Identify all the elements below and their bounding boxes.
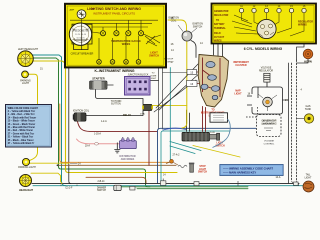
headlight lower-left: [20, 175, 32, 187]
wire black starter to relay bus: [96, 89, 144, 104]
svg-text:15: 15: [91, 7, 95, 11]
svg-text:TO HORN: TO HORN: [111, 101, 122, 103]
headlight upper-left: [18, 51, 34, 67]
svg-text:27-A: 27-A: [140, 113, 145, 116]
wire teal diagonals at motor: [170, 142, 201, 154]
svg-text:20-A: 20-A: [85, 145, 90, 148]
panel 1 internal wiring: [70, 19, 158, 27]
legend text: [8, 107, 39, 145]
distributor top towers: [123, 137, 133, 138]
brown junction dot: [57, 164, 59, 166]
PANEL-1 instrument cluster panel: [65, 4, 166, 68]
mid harness connector: [194, 182, 199, 186]
watermark bar: [220, 164, 283, 175]
svg-text:CLUSTER: CLUSTER: [235, 64, 247, 67]
gas tank feed: [297, 118, 305, 120]
wire black drop to starting motor: [187, 110, 190, 132]
wire panel2 bus right: [297, 44, 305, 60]
horn relay: [142, 104, 153, 110]
generator end view: [258, 94, 277, 111]
svg-text:SWITCH: SWITCH: [198, 172, 207, 174]
horn: [303, 49, 313, 59]
wire maroon drops to starting motor: [203, 107, 206, 132]
svg-text:TO: TO: [152, 73, 155, 75]
svg-text:TO STOP: TO STOP: [164, 59, 174, 61]
wire black bottom long run: [32, 183, 299, 185]
panel 2 terminal numbers: [240, 5, 306, 8]
wire pink distributor lead: [77, 139, 120, 144]
svg-text:WIRES: WIRES: [214, 41, 222, 43]
wire black dash fan diagonals: [154, 64, 202, 112]
svg-text:CONTROL: CONTROL: [264, 143, 275, 145]
svg-text:LIGHT: LIGHT: [199, 169, 206, 171]
svg-text:SWITCH: SWITCH: [149, 55, 159, 58]
speedometer gauge: [69, 23, 91, 50]
dash panel (tan): [198, 55, 228, 108]
cutout terminal block: [125, 77, 151, 96]
svg-text:REGULATOR: REGULATOR: [214, 14, 229, 17]
panel 1 background: [65, 4, 166, 68]
svg-text:BATTERY: BATTERY: [214, 23, 225, 26]
wire navy loop left: [158, 128, 257, 183]
wire yellow main left vertical: [32, 61, 177, 173]
gas tank sender: [304, 114, 313, 123]
starter: [90, 81, 114, 89]
svg-text:TAIL: TAIL: [306, 174, 311, 177]
svg-text:14-B: 14-B: [210, 132, 215, 134]
tail connector: [294, 182, 299, 185]
PANEL-2 regulator panel: [212, 4, 317, 44]
svg-text:TANK: TANK: [305, 108, 312, 111]
svg-text:2-B-14: 2-B-14: [98, 181, 106, 183]
wire right solid vertical: [288, 63, 290, 184]
wire black left vertical: [69, 57, 71, 184]
wire black panel2 drops: [214, 44, 223, 58]
svg-text:4 – Blk – Red – 2 Blu Trcr: 4 – Blk – Red – 2 Blu Trcr: [8, 113, 35, 116]
gauge terminal crosses: [101, 32, 142, 35]
ignition coil (between panels): [178, 25, 197, 41]
svg-text:35 – Black – Blue Tracer: 35 – Black – Blue Tracer: [8, 139, 34, 142]
ground symbol: [114, 143, 120, 153]
svg-text:27 – Green with Red Trcr: 27 – Green with Red Trcr: [8, 132, 35, 135]
svg-text:REGULATOR: REGULATOR: [259, 69, 273, 72]
gauge terminal row: [100, 31, 143, 36]
svg-text:STOP: STOP: [199, 166, 206, 168]
svg-text:27-A-2: 27-A-2: [173, 154, 181, 157]
speedometer housing: [72, 24, 92, 49]
svg-text:24 – Red – White Tracer: 24 – Red – White Tracer: [8, 129, 33, 132]
svg-text:WIRE COLOR CODE CHART: WIRE COLOR CODE CHART: [8, 107, 39, 110]
wire maroon relay drop: [148, 111, 150, 166]
wire black ignition drop: [191, 41, 196, 58]
svg-text:TO: TO: [216, 20, 219, 22]
svg-text:LIGHT: LIGHT: [165, 61, 172, 63]
svg-text:16 – Green – Black Tracer: 16 – Green – Black Tracer: [8, 123, 36, 126]
wire green dimmer run: [122, 187, 249, 189]
svg-text:15 – Black – White Tracer: 15 – Black – White Tracer: [8, 120, 35, 123]
wire yellow diagonal at motor: [193, 146, 240, 158]
svg-text:WIRES: WIRES: [122, 42, 131, 46]
wire black coil to relay: [86, 111, 143, 116]
panel 2 internal wiring: [242, 13, 305, 36]
svg-text:2 – Yellow with Black Trcr: 2 – Yellow with Black Trcr: [8, 110, 35, 113]
svg-text:1-2-A: 1-2-A: [101, 120, 107, 123]
svg-text:10 20 30 40: 10 20 30 40: [75, 34, 87, 36]
svg-text:TERMINAL: TERMINAL: [214, 27, 226, 30]
svg-text:PARKING LIGHT: PARKING LIGHT: [18, 166, 36, 169]
lower terminal crosses: [98, 60, 141, 63]
generator bracket: [247, 82, 283, 114]
svg-text:BUTTON: BUTTON: [111, 104, 121, 106]
svg-text:21 – Blue with Red Tracer: 21 – Blue with Red Tracer: [8, 126, 35, 129]
tail drop links: [292, 181, 300, 186]
wire black tag feed: [163, 72, 187, 74]
rear junction tick: [236, 181, 240, 186]
svg-text:LIGHT: LIGHT: [150, 78, 157, 80]
wire teal headlight feed left vertical: [33, 55, 66, 186]
wire yellow relay out: [152, 104, 187, 106]
wire yellow parking lamp vertical: [29, 74, 38, 160]
wire generator to right bus: [283, 99, 289, 101]
dashed link: [246, 107, 258, 117]
svg-text:IGNITION COIL: IGNITION COIL: [73, 111, 90, 113]
tail light: [303, 181, 314, 192]
svg-text:COIL: COIL: [171, 20, 177, 23]
starting motor: [182, 132, 220, 141]
svg-text:50 60 70: 50 60 70: [76, 37, 85, 39]
wire steel curve from junction box: [213, 119, 231, 148]
svg-text:SWITCH: SWITCH: [97, 190, 106, 192]
wire yellow ignition drop: [182, 42, 187, 129]
svg-text:INSTRUMENT PANEL CIRCUITS: INSTRUMENT PANEL CIRCUITS: [93, 12, 135, 16]
svg-text:STARTER: STARTER: [92, 77, 105, 81]
svg-text:AND WIRES: AND WIRES: [121, 158, 135, 161]
wire right dashed vertical 1: [291, 63, 293, 181]
svg-text:K–INSTRUMENT WIRING: K–INSTRUMENT WIRING: [94, 69, 134, 73]
svg-text:1-35-A: 1-35-A: [94, 133, 101, 136]
svg-text:SWITCH: SWITCH: [193, 26, 203, 29]
svg-text:HEADLIGHT: HEADLIGHT: [19, 189, 33, 192]
svg-text:37 – Yellow with Black Tr: 37 – Yellow with Black Tr: [8, 142, 35, 145]
legend box: [6, 105, 52, 148]
regulator body: [257, 19, 276, 38]
stoplight switch junction: [166, 159, 178, 165]
wire maroon coil feed: [78, 122, 158, 132]
ignition coil cylinder: [73, 113, 86, 121]
panel 2 terminal row: [239, 8, 306, 12]
wire teal loop inner: [161, 131, 230, 183]
svg-text:LIGHT: LIGHT: [305, 177, 312, 179]
svg-text:HORN: HORN: [304, 60, 312, 64]
light switch label: [149, 52, 159, 58]
wire teal drop to junction: [169, 68, 171, 160]
svg-text:FIELD: FIELD: [214, 33, 221, 35]
wire green left vertical to dimmer: [33, 58, 150, 187]
wire brown harness left: [58, 164, 177, 166]
pink lead connector: [95, 143, 99, 146]
dimmer switch: [114, 185, 121, 190]
parking lamp lower-left: [22, 158, 29, 165]
svg-text:SPEEDOMETER: SPEEDOMETER: [72, 31, 90, 33]
svg-text:DIMMER: DIMMER: [97, 187, 107, 189]
stoplight switch coil: [178, 165, 187, 168]
stoplight switch plunger: [189, 163, 194, 173]
regulator resistor: [264, 73, 270, 82]
svg-text:WIRING: WIRING: [298, 24, 307, 27]
svg-text:LEFT HEADLIGHT: LEFT HEADLIGHT: [18, 48, 39, 51]
wire blue over starting motor: [163, 128, 186, 130]
svg-text:31 – Yellow – Black Trcr: 31 – Yellow – Black Trcr: [8, 136, 33, 139]
wire orange harness run: [60, 104, 170, 162]
svg-text:VOLTAGE: VOLTAGE: [261, 67, 272, 70]
svg-text:GENERATOR: GENERATOR: [214, 10, 229, 13]
svg-text:—— MAIN HARNESS KEY: —— MAIN HARNESS KEY: [223, 170, 256, 174]
svg-text:(2) 2-F: (2) 2-F: [66, 187, 73, 189]
terminal tag 16: [187, 81, 198, 87]
svg-text:LIGHTING SWITCH AND WIRING: LIGHTING SWITCH AND WIRING: [87, 7, 141, 11]
svg-text:—— WIRING ASSEMBLY CODE CHART: —— WIRING ASSEMBLY CODE CHART: [223, 166, 273, 170]
svg-text:JUNCTION BLOCK: JUNCTION BLOCK: [128, 73, 149, 76]
beam indicator lamp: [77, 10, 86, 19]
parking lamp upper-left: [22, 71, 29, 78]
svg-text:ASSEMBLY: ASSEMBLY: [263, 123, 275, 126]
lower terminal row: [97, 60, 141, 65]
svg-text:LIGHT: LIGHT: [234, 93, 242, 96]
solenoid junction box: [210, 113, 228, 122]
terminal tag 15: [187, 70, 197, 75]
wire black panel drops to loop: [159, 68, 163, 130]
wire maroon tag links: [197, 72, 200, 84]
wire brown loop bottom: [86, 177, 146, 183]
panel 2 left labels: [214, 10, 229, 43]
rear connector block: [161, 179, 166, 186]
wire horn drop: [297, 59, 309, 63]
wire yellow panel to coil: [168, 20, 187, 31]
wire yellow headlamp low run: [31, 173, 62, 183]
svg-text:AT CUTOUT: AT CUTOUT: [263, 120, 276, 123]
svg-text:CUT-OUT: CUT-OUT: [214, 37, 225, 39]
svg-text:6 CYL. MODELS WIRING: 6 CYL. MODELS WIRING: [244, 47, 283, 51]
panel 2 background: [212, 4, 317, 44]
wire black cutout link: [150, 80, 159, 82]
svg-text:14 – Black with Red Tracer: 14 – Black with Red Tracer: [8, 116, 37, 119]
connector small: [130, 186, 135, 190]
svg-text:DOME: DOME: [150, 75, 157, 77]
distributor: [120, 139, 137, 149]
svg-text:CIRCUIT BREAKER: CIRCUIT BREAKER: [71, 53, 94, 56]
cutout dashed detail box: [257, 115, 282, 137]
svg-text:VOLTAGE: VOLTAGE: [264, 140, 275, 143]
svg-text:AMP: AMP: [70, 9, 75, 12]
WIRES-LAYER: [29, 20, 308, 189]
wire teal bottom run to tail lamp: [33, 185, 303, 187]
svg-text:LIGHT: LIGHT: [22, 82, 30, 85]
svg-text:RELAY: RELAY: [123, 114, 131, 117]
wire right dashed vertical 2: [296, 60, 298, 181]
wire yellow parking cross link: [30, 162, 69, 164]
svg-text:14-A: 14-A: [276, 176, 281, 179]
